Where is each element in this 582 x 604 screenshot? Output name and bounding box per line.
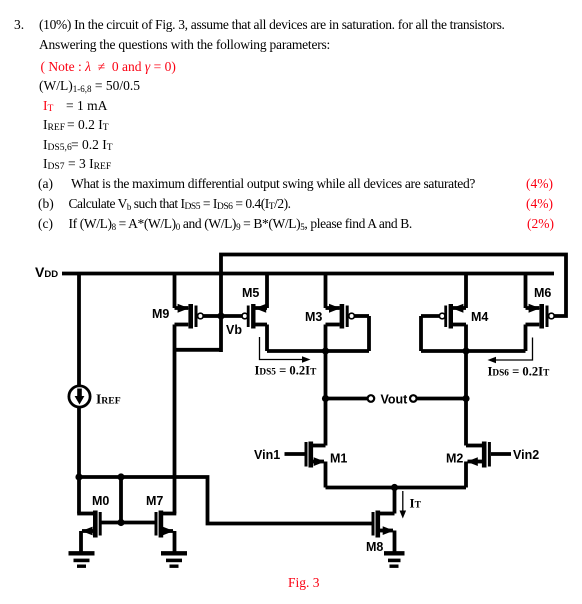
transistor M5 (223, 274, 267, 352)
svg-text:Vin1: Vin1 (254, 448, 280, 462)
svg-text:M1: M1 (330, 452, 347, 466)
wire M9 drain down to M7 drain (173, 325, 177, 514)
svg-text:M0: M0 (92, 494, 109, 508)
junction dot rail (117, 473, 124, 480)
wire Vout right (417, 397, 466, 401)
label M4 (471, 310, 488, 324)
svg-text:M5: M5 (242, 286, 259, 300)
junction dot M4 drain (462, 347, 469, 354)
label M5 (242, 286, 259, 300)
junction dot IREF node (75, 473, 82, 480)
wire tail to M8 drain (393, 488, 397, 514)
svg-text:M2: M2 (446, 452, 463, 466)
wire M4 drain down to M2 drain (464, 351, 468, 446)
transistor M9 (175, 274, 220, 329)
junction dot M3 drain (322, 347, 329, 354)
svg-text:VDD: VDD (35, 264, 58, 280)
label IDS6 = 0.2IT (488, 365, 551, 379)
ground below M8 (384, 553, 405, 566)
wire M4 gate loop (419, 316, 423, 351)
transistor M8 (373, 511, 395, 552)
transistor M4 (421, 274, 466, 352)
svg-text:M3: M3 (305, 310, 322, 324)
junction dot gate line (117, 519, 124, 526)
wire M5 drain to M3 drain node (267, 349, 369, 353)
ground below M0 (69, 553, 95, 566)
wire tail rail (326, 486, 467, 490)
transistor M7 (156, 511, 176, 552)
transistor M6 (526, 274, 555, 352)
node Vb label (226, 323, 242, 337)
junction dot tail (391, 484, 398, 491)
wire gate tie vertical (119, 477, 123, 523)
svg-text:IREF: IREF (96, 392, 121, 407)
annotation IT arrow (400, 491, 407, 519)
ground below M7 (161, 553, 187, 566)
label M0 (92, 494, 109, 508)
label Vin2 (513, 448, 539, 462)
label M9 (152, 307, 169, 321)
terminal Vout right (410, 395, 417, 402)
label Vin1 (254, 448, 280, 462)
node Vout label (381, 393, 409, 407)
svg-text:M6: M6 (534, 286, 551, 300)
label IREF (96, 392, 121, 407)
svg-text:M8: M8 (366, 540, 383, 554)
wire M0 gate to M7 gate (100, 521, 155, 525)
label M1 (330, 452, 347, 466)
wire top bias loop (Vb line up, across, down to M6 gate) (221, 255, 566, 353)
wire M3 drain down to M1 drain (324, 351, 328, 446)
annotation IDS6 arrow (488, 338, 533, 364)
VDD rail (62, 272, 554, 276)
svg-text:M4: M4 (471, 310, 488, 324)
caption Fig. 3 (288, 576, 320, 589)
junction dot Vout left (322, 395, 329, 402)
label IDS5 = 0.2IT (255, 364, 318, 378)
svg-text:Vb: Vb (226, 323, 242, 337)
junction dot Vout right (462, 395, 469, 402)
svg-text:IDS5 = 0.2IT: IDS5 = 0.2IT (255, 364, 318, 378)
current source IREF (69, 386, 90, 407)
label M2 (446, 452, 463, 466)
problem text block (14, 18, 24, 31)
svg-text:M9: M9 (152, 307, 169, 321)
transistor M3 (326, 274, 370, 352)
svg-text:Vin2: Vin2 (513, 448, 539, 462)
terminal Vout left (368, 395, 375, 402)
svg-text:IDS6 = 0.2IT: IDS6 = 0.2IT (488, 365, 551, 379)
svg-text:Vout: Vout (381, 393, 409, 407)
transistor M1 (285, 442, 326, 488)
wire VDD to IREF (77, 274, 81, 387)
junction dot Vb gate node (217, 312, 224, 319)
wire IREF to M0 drain (77, 407, 81, 514)
svg-text:M7: M7 (146, 494, 163, 508)
wire Vout left (326, 397, 368, 401)
svg-text:IT: IT (410, 496, 422, 511)
transistor M0 (77, 511, 100, 552)
node VDD label (35, 264, 58, 280)
wire M9 drain branch to Vb (175, 348, 222, 352)
transistor M2 (466, 442, 511, 488)
annotation IDS5 arrow (260, 337, 311, 363)
label M6 (534, 286, 551, 300)
label M7 (146, 494, 163, 508)
label IT (410, 496, 422, 511)
label M3 (305, 310, 322, 324)
wire M3 gate loop (367, 316, 371, 351)
wire M4 drain to M6 drain (421, 349, 526, 353)
node mirror-gate rail (79, 477, 372, 524)
label M8 (366, 540, 383, 554)
